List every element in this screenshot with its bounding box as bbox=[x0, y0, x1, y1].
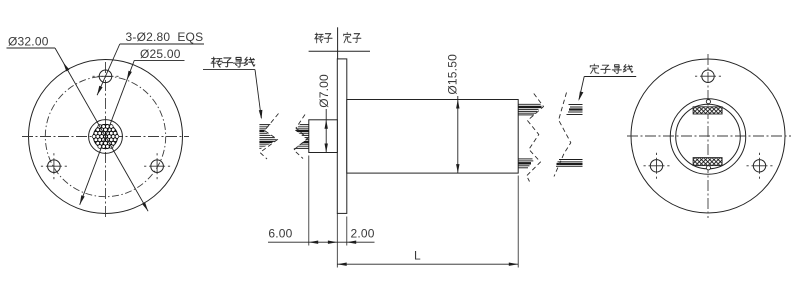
svg-text:6.00: 6.00 bbox=[268, 227, 292, 241]
stator wires floating bundle bottom bbox=[556, 160, 583, 167]
bolt circle Ø25 dash-dot bbox=[45, 76, 165, 196]
outer circle flange Ø32 bbox=[29, 60, 183, 214]
svg-text:L: L bbox=[414, 249, 421, 263]
rear hole left bbox=[650, 160, 662, 172]
outer circle rear flange bbox=[631, 59, 785, 213]
svg-text:Ø32.00: Ø32.00 bbox=[8, 35, 49, 49]
rotor/stator divider line bbox=[337, 27, 339, 59]
vertical centerline bbox=[707, 54, 709, 218]
svg-text:Ø7.00: Ø7.00 bbox=[317, 74, 331, 108]
flange rect side view bbox=[337, 59, 347, 214]
rear hole top bbox=[702, 70, 714, 82]
break zigzag at floating rotor wires bbox=[260, 114, 279, 160]
stator ring inner bbox=[676, 104, 741, 169]
wire bundle cross-section bbox=[92, 124, 119, 149]
Ø25.00 label bbox=[134, 59, 184, 61]
brush block top crosshatched bbox=[693, 107, 722, 114]
3-Ø2.80 EQS leader through top hole bbox=[97, 44, 120, 95]
rotor wires attached to shaft (hatched) bbox=[291, 125, 310, 149]
rear hole right bbox=[753, 160, 765, 172]
rotor lead leader bbox=[255, 70, 261, 118]
rotor wires floating bundle (hatched) bbox=[259, 125, 278, 149]
horizontal centerline bbox=[22, 136, 189, 138]
header label stator 定子 bbox=[344, 33, 351, 43]
header underline bbox=[309, 50, 370, 52]
center boss circle Ø7 bbox=[89, 120, 123, 154]
break zigzag at shaft wires bbox=[294, 115, 308, 159]
small screw top bbox=[706, 100, 710, 104]
extension line flange right bbox=[346, 217, 348, 246]
svg-text:Ø25.00: Ø25.00 bbox=[140, 47, 181, 61]
mounting hole bottom-right bbox=[151, 160, 164, 173]
small screw bottom bbox=[706, 166, 710, 170]
body cylinder rect bbox=[347, 100, 518, 174]
Ø25 diameter dimension line bbox=[80, 60, 135, 204]
stator wires attached to body bottom bbox=[518, 159, 533, 168]
svg-text:Ø15.50: Ø15.50 bbox=[446, 54, 460, 95]
break zigzag at body wires bbox=[527, 94, 544, 182]
rotor lead label 转子导线 bbox=[211, 57, 222, 67]
svg-text:3-Ø2.80 EQS: 3-Ø2.80 EQS bbox=[126, 30, 204, 44]
extension line shaft left end bbox=[308, 156, 310, 246]
Ø32 diameter dimension line bbox=[55, 48, 148, 211]
L dimension line bbox=[337, 263, 518, 265]
stator wires attached to body top bbox=[518, 104, 542, 115]
Ø32.00 label bbox=[7, 47, 56, 49]
stator wires floating bundle top bbox=[567, 105, 583, 115]
break zigzag at floating stator wires bbox=[554, 93, 571, 177]
extension line flange left bbox=[336, 213, 338, 267]
stator ring outer bbox=[670, 99, 746, 175]
vertical centerline bbox=[105, 62, 107, 219]
3-Ø2.80 EQS label bbox=[120, 43, 204, 45]
header label rotor 转子 bbox=[315, 33, 324, 43]
stator lead label 定子导线 bbox=[590, 64, 598, 73]
svg-text:2.00: 2.00 bbox=[351, 227, 375, 241]
brush block bottom crosshatched bbox=[693, 158, 722, 166]
stator lead leader bbox=[579, 77, 584, 100]
horizontal centerline bbox=[627, 135, 791, 137]
mounting hole top Ø2.80 bbox=[99, 70, 112, 83]
mounting hole bottom-left bbox=[48, 160, 61, 173]
6.00 / 2.00 dimension line bbox=[268, 241, 375, 243]
rotor shaft rect Ø7 bbox=[309, 120, 338, 153]
extension line body right bbox=[517, 176, 519, 268]
